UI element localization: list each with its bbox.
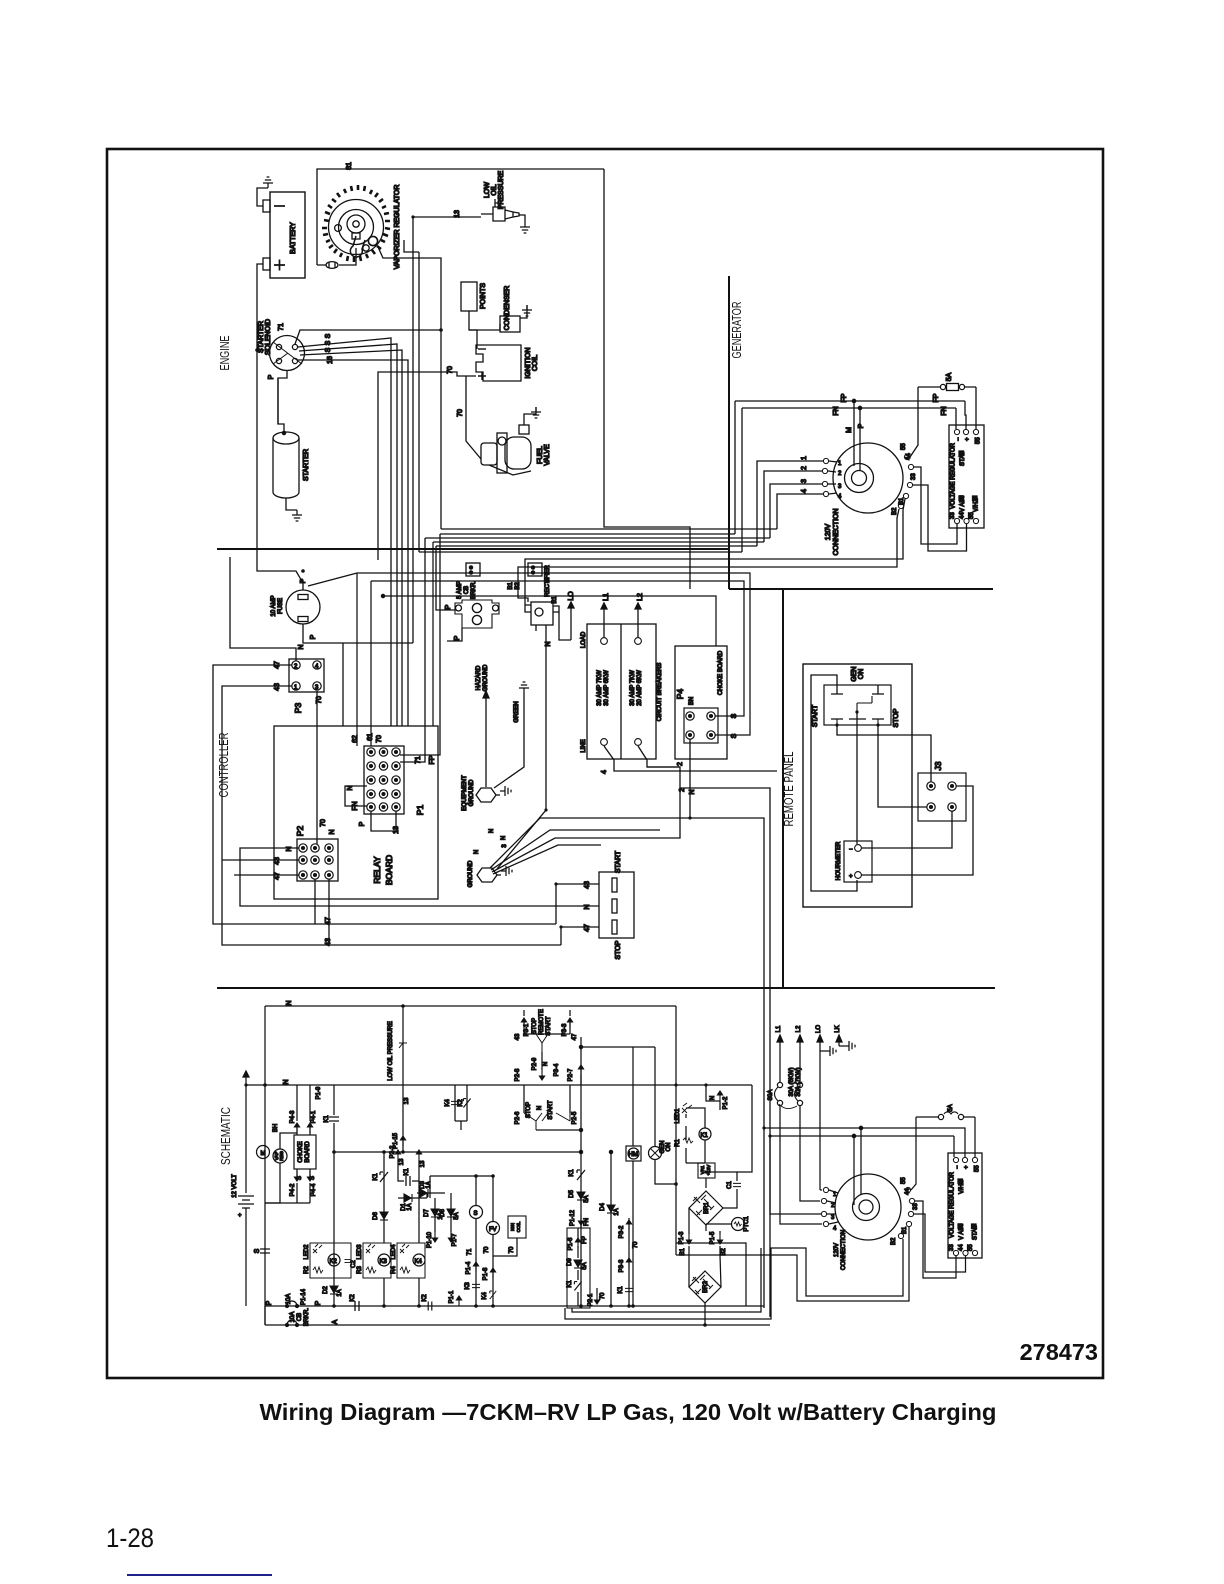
P1 riser 70 junction bbox=[381, 594, 384, 597]
bundle wire h596 bbox=[383, 596, 716, 646]
gen2 left terminals bbox=[823, 1187, 828, 1192]
B1 loop wire bbox=[676, 1227, 909, 1301]
ignition coil bbox=[476, 345, 521, 381]
vap reg wires bbox=[280, 1133, 297, 1149]
regulator top pins bbox=[954, 429, 959, 434]
cap S on left rail bbox=[260, 1249, 270, 1253]
start stop switch block bbox=[599, 872, 634, 938]
K2 cluster bbox=[304, 1243, 357, 1278]
h1047 rail bbox=[581, 1046, 655, 1048]
5A fuse 2 bbox=[916, 1112, 975, 1120]
LINE wires 4 and 2 bbox=[604, 746, 777, 771]
v334 lower with diode bbox=[333, 1152, 335, 1306]
K2 cap on rail1 bbox=[355, 1301, 359, 1311]
VR1 box bbox=[698, 1163, 715, 1178]
bottom rail1 bbox=[265, 1305, 764, 1307]
P2 bottom wires bbox=[314, 879, 316, 924]
wire from contacts down to rail bbox=[536, 1129, 581, 1131]
ground below starter bbox=[292, 510, 302, 521]
terminal block 2 bbox=[528, 563, 542, 576]
gen on centre wire down to hourmeter minus bbox=[856, 712, 858, 844]
P2 left wires bbox=[240, 848, 599, 906]
P3 N wire bbox=[230, 557, 296, 661]
wire regulator 44 to gen 33 bbox=[913, 485, 967, 551]
h1128 h1136 rails bbox=[764, 1128, 965, 1157]
wire 13 from low oil switch bbox=[413, 217, 481, 643]
divider engine/controller bbox=[217, 548, 729, 550]
ground above battery bbox=[263, 177, 273, 188]
battery branch bbox=[245, 1085, 247, 1193]
bundle wire h573 to P4 S2 bbox=[357, 573, 750, 735]
wire FP right end down to reg plus bbox=[965, 401, 966, 429]
solenoid left wire to battery line bbox=[257, 349, 270, 351]
GEN ON lamp bbox=[654, 1047, 656, 1146]
motor circle M bbox=[257, 1146, 270, 1159]
vap reg circle bbox=[273, 1149, 287, 1163]
L1 L2 arrows bbox=[603, 607, 605, 637]
M P wires into gen2 bbox=[853, 1136, 855, 1205]
BR2 bridge bbox=[689, 1271, 721, 1303]
K2 cap mid bottom bbox=[428, 1302, 432, 1311]
battery bbox=[263, 192, 305, 278]
P4 choke board bbox=[675, 646, 727, 759]
wire points to coil bbox=[469, 311, 477, 349]
P3-2 P3-3 column bbox=[628, 1218, 630, 1306]
ground fan wires bbox=[490, 818, 690, 868]
voltage regulator box bbox=[949, 425, 984, 528]
divider controller/schematic horizontal bbox=[217, 987, 995, 989]
v384 upper: K1 contact and D6 bbox=[383, 1152, 385, 1243]
bundle wire h581 to P4 S1 bbox=[371, 581, 744, 716]
LED1 K1 R1 branch bbox=[685, 1114, 687, 1163]
breaker wires to generator terminals bbox=[780, 1106, 822, 1224]
divider generator vertical bbox=[728, 276, 730, 589]
VR2 bottom wires bbox=[915, 1201, 956, 1278]
mid rail bbox=[334, 1151, 581, 1153]
J3 connector bbox=[918, 773, 966, 821]
S solenoid circle bbox=[475, 1176, 477, 1206]
voltage regulator 2 box bbox=[948, 1153, 982, 1258]
switch contacts bbox=[831, 685, 843, 694]
hourmeter plus wire to J3 pin2 bbox=[861, 786, 973, 875]
bundle wire h542 bbox=[433, 542, 764, 726]
rectifier B1 B2 feed wires bbox=[524, 592, 526, 605]
rectifier bbox=[525, 602, 559, 631]
HM meter box bbox=[632, 1047, 634, 1146]
P1 bottom wires bbox=[371, 811, 396, 831]
circuit breakers box bbox=[587, 624, 656, 759]
outer border frame bbox=[107, 149, 1103, 1378]
wire 55 terminal to fuse bbox=[910, 387, 918, 457]
ground at condenser bbox=[522, 305, 532, 316]
P1-1 pin on rail1 bbox=[456, 1296, 461, 1306]
5 amp cb brkr bbox=[455, 600, 499, 628]
terminal block 1 bbox=[466, 563, 480, 576]
wire FN top bbox=[742, 408, 956, 552]
K4 K2 contact pair bbox=[455, 1085, 467, 1121]
wire from solenoid area down left rail bbox=[277, 378, 279, 424]
D4 column bbox=[610, 1152, 612, 1306]
generator terminal 4 bbox=[823, 491, 828, 496]
vaporizer bottom long vertical wire bbox=[418, 252, 420, 552]
wire gen B2 down-left (to rectifier B2) bbox=[518, 509, 899, 592]
start/genon/stop switch box bbox=[824, 685, 891, 725]
5A fuse bbox=[918, 384, 976, 391]
P3 47 wire long bbox=[213, 665, 556, 924]
left vertical rail bbox=[264, 1006, 266, 1325]
cluster bottom wires bbox=[384, 1278, 419, 1306]
hourmeter box bbox=[844, 841, 872, 882]
P2 connector bbox=[297, 839, 338, 881]
generator terminal 1 bbox=[823, 458, 828, 463]
D7 D8 vertical pair bbox=[435, 1193, 451, 1232]
ground hex 2 bbox=[477, 868, 497, 882]
low oil pressure switch bbox=[481, 199, 519, 221]
bundle wire h529 bbox=[441, 528, 777, 530]
terminal wires going left then down bbox=[757, 461, 823, 546]
choke pins P4-2 P4-4 bbox=[294, 1171, 299, 1181]
bundle wire h538 bbox=[425, 537, 770, 539]
generator right terminals 55 44 33 B1 B2 bbox=[904, 454, 909, 459]
v676 long vertical bbox=[675, 1006, 677, 1255]
fuse 10A CB BRKR on rail2 bbox=[287, 1320, 297, 1325]
bundle wire h546 bbox=[436, 545, 757, 547]
rectifier N wire down to ground fan bbox=[497, 631, 546, 869]
12 volt battery bbox=[238, 1196, 254, 1208]
regulator internal squares and labels bbox=[959, 451, 964, 456]
wire FN right end down to reg minus bbox=[955, 408, 957, 429]
generator terminal 3 bbox=[822, 481, 827, 486]
remote start stop cluster top bbox=[523, 1028, 525, 1034]
wire vaporizer right up-loop to fan wire 71 bbox=[378, 247, 441, 529]
vaporizer regulator gear circle bbox=[322, 185, 390, 262]
top rail N bbox=[265, 1005, 676, 1007]
P1-5 B2 pin bbox=[717, 1234, 722, 1244]
P2-2 pin and K1 cap branch bbox=[397, 1160, 399, 1169]
relay board box bbox=[274, 726, 438, 899]
K4 cluster bbox=[391, 1243, 425, 1278]
generator 2 circle bbox=[835, 1174, 901, 1240]
choke pins P4-3 P4-1 bbox=[294, 1123, 299, 1133]
condenser box bbox=[500, 316, 520, 332]
P1 connector bbox=[364, 746, 404, 814]
LK arrow wire bbox=[839, 1040, 844, 1046]
sub rail 1176 bbox=[430, 1176, 493, 1198]
vaporizer bottom connector wire bbox=[317, 248, 356, 265]
generator rotor circles bbox=[845, 464, 874, 493]
start wire to J3 pin1 bbox=[837, 725, 931, 782]
P4 N wire down right bbox=[690, 739, 764, 1308]
LO ground stub bbox=[820, 1050, 825, 1052]
43/47 wires to remote start bbox=[524, 1022, 570, 1028]
diagonal fuse to bundle bbox=[308, 573, 357, 586]
generator stator circle bbox=[833, 443, 903, 513]
wire FP top bbox=[735, 401, 965, 534]
wire battery neg to ground bbox=[257, 188, 268, 206]
55 to fuse wire bbox=[911, 1117, 916, 1190]
wire gen B1 down-left (to rectifier B1) bbox=[525, 499, 905, 592]
wire fuse to regulator pin 55 bbox=[975, 387, 977, 429]
divider controller/remote vertical bbox=[782, 589, 784, 988]
solenoid bottom wire P to starter bbox=[278, 371, 287, 433]
ground at low oil switch bbox=[520, 222, 530, 233]
FV circle bbox=[487, 1222, 500, 1235]
rail2 bbox=[246, 1084, 752, 1086]
bottom rail2 A bbox=[265, 1306, 770, 1325]
wire into fuse top from battery rail bbox=[286, 571, 303, 590]
LO arrow bbox=[570, 606, 572, 640]
P2-8 P2-9 column bbox=[541, 1052, 543, 1070]
inner wire loop bbox=[811, 675, 857, 891]
PTC1 bbox=[732, 1218, 745, 1231]
hourmeter minus wire to J3 pin4 bbox=[861, 811, 952, 848]
P1 riser 62 bbox=[356, 573, 358, 746]
points box bbox=[461, 282, 477, 311]
K3 cluster bbox=[357, 1243, 391, 1278]
h1312 wire bbox=[572, 1248, 761, 1312]
stop start contacts row2 bbox=[524, 1085, 570, 1113]
green ground wire bbox=[519, 682, 529, 693]
remote panel outer box bbox=[803, 664, 912, 907]
LO arrow wire bbox=[819, 1040, 821, 1190]
P3 connector bbox=[289, 659, 324, 692]
L1 arrow bbox=[779, 1040, 781, 1082]
D1 D3 diodes horizontal bbox=[398, 1197, 427, 1199]
bundle wire h552 bbox=[419, 551, 742, 553]
L2 arrow bbox=[799, 1040, 801, 1082]
v581 long bbox=[580, 1037, 582, 1306]
P2-1 70 pin bbox=[594, 1294, 599, 1304]
P1 left N FN stubs bbox=[345, 786, 367, 806]
P3 43 wire long bbox=[222, 686, 561, 945]
BR1 bridge bbox=[689, 1191, 723, 1225]
solenoid fan wires right bbox=[295, 330, 441, 344]
P1 right risers 71 FP bbox=[400, 538, 425, 762]
engine right tall wire bbox=[604, 169, 690, 589]
B2 loop wire bbox=[565, 1239, 903, 1319]
ground at fuel valve bbox=[531, 407, 541, 418]
starter cylinder bbox=[273, 431, 299, 498]
P1-3 B1 pin bbox=[686, 1234, 691, 1244]
C1 cap bbox=[736, 1178, 738, 1192]
10 amp fuse bbox=[286, 590, 320, 624]
fuse 10A on rail1 bbox=[287, 1301, 297, 1306]
P4 S pin wires bbox=[715, 716, 722, 735]
svg-text:1-28: 1-28 bbox=[106, 1523, 154, 1553]
regulator bottom pins bbox=[954, 518, 959, 523]
stop wire to J3 pin3 bbox=[878, 725, 927, 807]
P1 riser 61 bbox=[370, 581, 372, 746]
5amp cb wires bbox=[436, 546, 455, 610]
generator terminal 2 bbox=[822, 468, 827, 473]
bottom rule (blue) bbox=[127, 1574, 272, 1576]
low oil pressure branch bbox=[402, 1006, 404, 1152]
h884 43 wire to switch bbox=[556, 884, 599, 924]
K1 contact column below mid rail bbox=[577, 1170, 585, 1180]
wire 70 coil down to fuel valve bbox=[466, 376, 481, 459]
bundle wire h534 bbox=[440, 533, 735, 535]
narrow box FP FN bbox=[567, 1228, 590, 1308]
P3 70 wire down to P2 bbox=[316, 691, 318, 844]
wires M P into rotor bbox=[853, 401, 855, 466]
divider generator/remote horizontal bbox=[729, 588, 993, 590]
h927 47 wire to switch bbox=[561, 927, 599, 945]
wire 81 top loop from vaporizer area bbox=[317, 169, 604, 265]
30A breakers bbox=[775, 1082, 803, 1108]
fuse bottom wire bbox=[303, 624, 413, 726]
starter solenoid bbox=[270, 336, 305, 371]
choke board box bbox=[294, 1135, 316, 1169]
gen2 right terminals bbox=[905, 1187, 910, 1192]
equipment ground hex bbox=[476, 788, 496, 802]
wire 70 from coil plus bbox=[378, 372, 476, 560]
N P1-2 pin bbox=[706, 1085, 720, 1110]
hazard ground arrow bbox=[485, 696, 487, 787]
fuse to VR2 55 pin bbox=[974, 1117, 976, 1157]
second long wire to schematic bbox=[647, 767, 770, 1317]
K1 coil cap on v334 bbox=[333, 1085, 335, 1152]
svg-text:Wiring Diagram —7CKM–RV LP Gas: Wiring Diagram —7CKM–RV LP Gas, 120 Volt… bbox=[260, 1399, 997, 1425]
wire regulator 33 to gen 44 bbox=[914, 467, 957, 544]
rail2 left arrow bbox=[245, 1075, 247, 1085]
wire battery plus down bbox=[257, 264, 286, 571]
P2-7 pin wire bbox=[580, 1075, 582, 1085]
fuel valve assembly bbox=[481, 425, 531, 475]
IGN COIL box bbox=[508, 1216, 526, 1238]
bottom rail right loop bbox=[676, 1243, 746, 1306]
